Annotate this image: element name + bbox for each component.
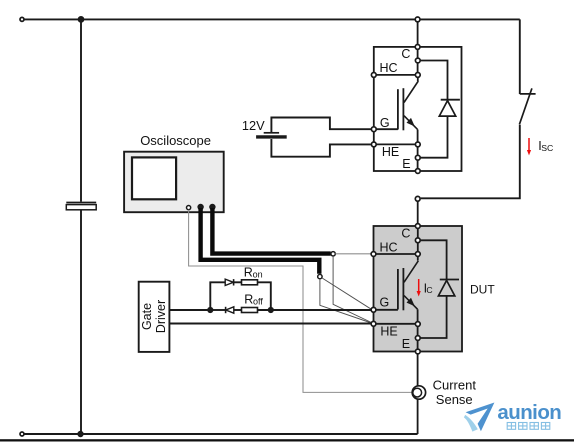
svg-text:Driver: Driver bbox=[154, 300, 168, 333]
svg-text:Osciloscope: Osciloscope bbox=[140, 133, 211, 148]
svg-text:G: G bbox=[380, 116, 390, 130]
svg-text:aunion: aunion bbox=[497, 401, 561, 424]
svg-text:E: E bbox=[402, 157, 410, 171]
svg-text:R: R bbox=[244, 265, 253, 279]
svg-text:HC: HC bbox=[380, 61, 398, 75]
svg-text:G: G bbox=[380, 296, 390, 310]
svg-text:HE: HE bbox=[380, 325, 397, 339]
svg-text:HC: HC bbox=[380, 241, 398, 255]
svg-text:C: C bbox=[401, 47, 410, 61]
svg-text:SC: SC bbox=[541, 143, 553, 153]
svg-text:R: R bbox=[244, 293, 253, 307]
svg-text:DUT: DUT bbox=[470, 283, 495, 297]
svg-text:Gate: Gate bbox=[140, 303, 154, 330]
svg-text:on: on bbox=[253, 270, 263, 280]
svg-text:E: E bbox=[402, 337, 410, 351]
svg-text:Current: Current bbox=[433, 377, 477, 392]
svg-text:off: off bbox=[253, 297, 263, 307]
svg-text:C: C bbox=[426, 285, 432, 295]
svg-text:C: C bbox=[401, 227, 410, 241]
svg-text:12V: 12V bbox=[242, 118, 265, 133]
svg-text:Sense: Sense bbox=[436, 392, 473, 407]
svg-text:HE: HE bbox=[382, 145, 399, 159]
